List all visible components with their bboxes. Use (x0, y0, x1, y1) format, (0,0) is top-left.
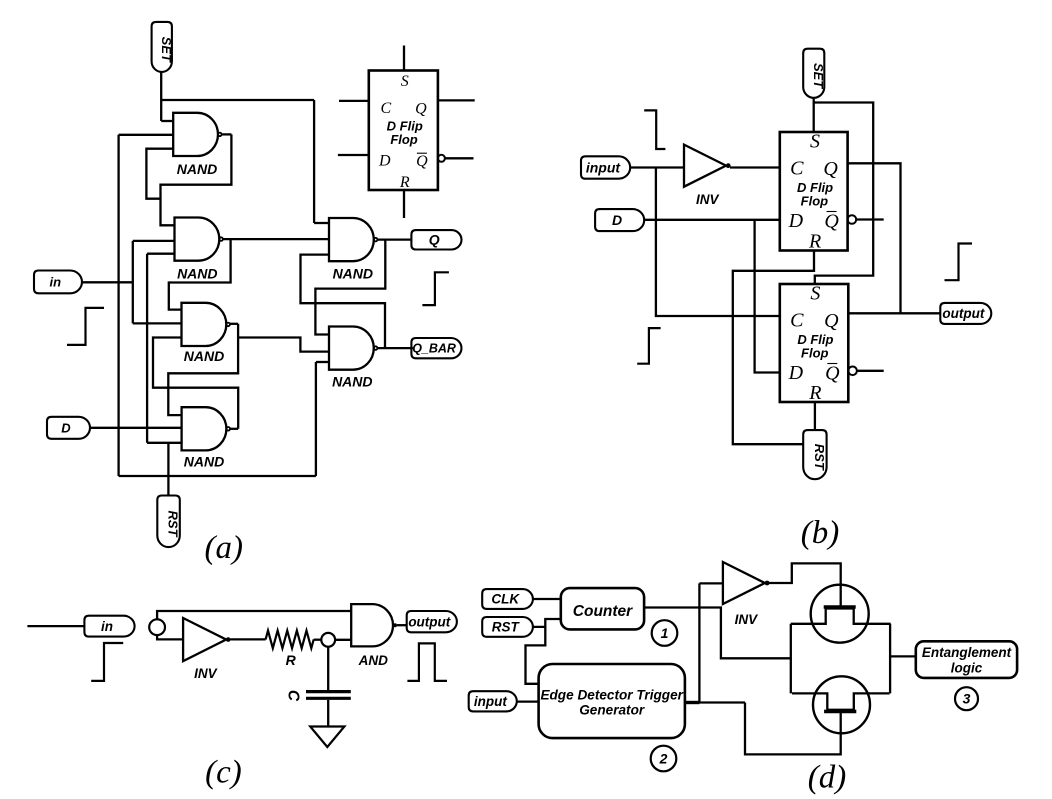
svg-text:output: output (942, 306, 984, 321)
svg-text:RST: RST (492, 620, 521, 635)
svg-text:(c): (c) (205, 755, 242, 791)
svg-text:R: R (286, 652, 297, 668)
svg-text:input: input (474, 694, 507, 709)
svg-text:Counter: Counter (573, 603, 633, 620)
svg-text:NAND: NAND (184, 453, 224, 469)
svg-text:1: 1 (661, 625, 669, 641)
svg-text:SET: SET (811, 63, 826, 89)
svg-text:RST: RST (812, 444, 827, 471)
svg-text:Entanglement: Entanglement (922, 645, 1012, 660)
svg-text:AND: AND (358, 653, 388, 668)
svg-text:SET: SET (159, 37, 174, 63)
svg-text:(d): (d) (808, 760, 846, 796)
svg-text:Q: Q (429, 232, 440, 248)
svg-text:D: D (61, 420, 71, 435)
svg-text:D: D (612, 212, 622, 228)
svg-text:R: R (808, 231, 821, 253)
svg-text:input: input (586, 159, 622, 175)
svg-text:3: 3 (963, 691, 971, 707)
svg-text:(b): (b) (801, 515, 839, 551)
svg-text:Generator: Generator (579, 703, 645, 718)
svg-text:Flop: Flop (801, 346, 828, 361)
svg-text:INV: INV (194, 666, 218, 681)
svg-text:D: D (378, 153, 391, 170)
svg-text:INV: INV (735, 612, 759, 627)
svg-text:NAND: NAND (184, 348, 224, 364)
svg-text:D: D (788, 210, 804, 232)
svg-text:R: R (399, 174, 410, 191)
svg-text:Q: Q (823, 158, 838, 180)
svg-text:output: output (408, 614, 450, 629)
svg-text:Q_BAR: Q_BAR (412, 342, 456, 356)
svg-text:Q: Q (824, 310, 839, 332)
svg-text:D: D (788, 362, 804, 384)
svg-text:(a): (a) (205, 530, 243, 566)
svg-text:NAND: NAND (177, 266, 217, 282)
svg-text:RST: RST (166, 511, 181, 538)
svg-text:S: S (810, 283, 820, 305)
svg-text:Q: Q (825, 363, 840, 385)
svg-text:Flop: Flop (390, 132, 417, 147)
svg-text:S: S (401, 73, 409, 90)
svg-text:Flop: Flop (801, 194, 828, 209)
svg-text:Q: Q (416, 153, 428, 170)
svg-text:NAND: NAND (333, 266, 373, 282)
svg-text:in: in (50, 274, 62, 289)
svg-text:C: C (790, 158, 804, 180)
svg-text:C: C (380, 100, 391, 117)
svg-text:R: R (808, 382, 821, 404)
svg-text:Edge Detector Trigger: Edge Detector Trigger (540, 688, 683, 703)
svg-text:in: in (101, 619, 113, 634)
svg-text:NAND: NAND (177, 161, 217, 177)
svg-text:S: S (810, 131, 820, 153)
svg-text:logic: logic (951, 661, 983, 676)
svg-text:INV: INV (696, 192, 720, 207)
svg-text:C: C (790, 310, 804, 332)
svg-text:CLK: CLK (491, 592, 520, 607)
svg-text:Q: Q (415, 101, 427, 118)
svg-text:2: 2 (659, 750, 668, 766)
svg-text:NAND: NAND (332, 373, 372, 389)
svg-text:Q: Q (824, 211, 839, 233)
svg-text:C: C (285, 690, 302, 702)
